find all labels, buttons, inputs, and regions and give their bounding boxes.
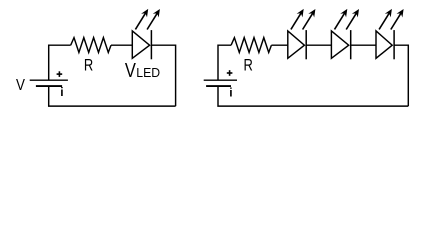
LED D3 cathode bar (350, 30, 352, 59)
wire LED D2 cathode to LED D3 anode (306, 44, 331, 46)
svg-text:i: i (229, 85, 232, 99)
LED D2 emission arrows (291, 9, 316, 30)
wire bottom return to battery V2 negative (218, 86, 408, 106)
wire resistor R1 to LED D1 anode (111, 44, 132, 46)
LED D4 cathode bar (393, 30, 395, 59)
LED D1 triangle (132, 31, 149, 58)
svg-text:R: R (244, 57, 253, 75)
label V_LED (125, 58, 160, 81)
wire bottom return to battery V1 negative (49, 86, 176, 106)
label V (left battery voltage) (16, 77, 25, 94)
LED D2 triangle (288, 31, 305, 58)
LED D3 emission arrows (335, 9, 360, 30)
svg-text:i: i (60, 85, 63, 99)
LED D3 triangle (331, 31, 348, 58)
wire resistor R2 to LED D2 anode (271, 44, 287, 46)
svg-text:R: R (84, 57, 93, 75)
LED D1 emission arrows (135, 9, 160, 30)
wire battery V2 positive up to top-left corner and to resistor R2 (218, 45, 231, 80)
battery V1 positive plate (long) (30, 79, 68, 81)
wire battery V1 positive up to top-left corner and to resistor R1 (49, 45, 71, 80)
wire LED D4 cathode to top-right corner down to bottom (394, 45, 408, 106)
battery V1 negative plate (short) (36, 85, 62, 87)
label R (left resistor) (84, 57, 93, 75)
battery V2 negative plate (short) (206, 85, 231, 87)
LED D1 cathode bar (150, 30, 152, 59)
label R (right resistor) (244, 57, 253, 75)
svg-text:LED: LED (136, 66, 160, 80)
LED D4 emission arrows (379, 9, 404, 30)
resistor R2 zigzag (231, 38, 271, 53)
battery V2 positive plate (long) (204, 79, 237, 81)
resistor R1 zigzag (71, 38, 111, 53)
wire LED D1 cathode to top-right corner down to bottom (151, 45, 175, 106)
LED D2 cathode bar (305, 30, 307, 59)
svg-text:V: V (125, 58, 137, 81)
battery V2 plus sign (227, 70, 233, 76)
battery V1 plus sign (57, 71, 63, 77)
svg-text:V: V (16, 77, 25, 94)
wire LED D3 cathode to LED D4 anode (351, 44, 376, 46)
LED D4 triangle (376, 31, 392, 58)
